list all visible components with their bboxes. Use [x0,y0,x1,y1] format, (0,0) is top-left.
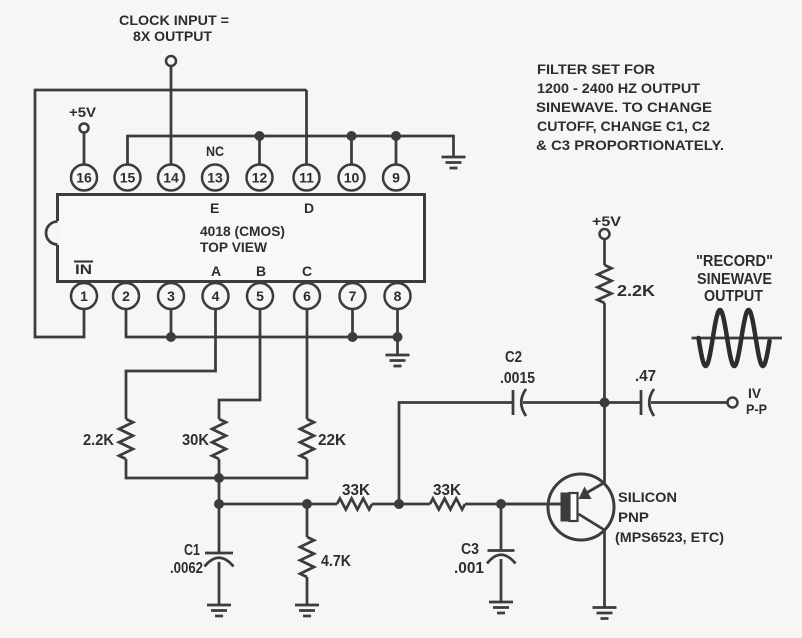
svg-text:7: 7 [349,288,357,304]
pin 3 [158,283,184,309]
svg-text:6: 6 [303,288,311,304]
resistor 22K [300,419,314,459]
pin 11 [294,165,320,191]
wire C3 top lead [500,504,503,551]
svg-text:9: 9 [392,170,400,186]
wire feedback left vertical rail [34,89,37,339]
svg-text:+5V: +5V [69,104,97,120]
svg-text:1: 1 [80,288,88,304]
wire resistor-bottom bus [126,477,307,480]
svg-text:C1: C1 [184,542,200,559]
svg-text:14: 14 [163,170,179,186]
pin 9 [383,165,409,191]
svg-text:4.7K: 4.7K [321,553,351,570]
svg-text:.0062: .0062 [170,560,203,577]
wire 22K bottom lead [306,459,309,479]
resistor 33K (second) [430,499,465,510]
wire C1 top lead [218,504,221,554]
svg-text:4018 (CMOS): 4018 (CMOS) [200,223,285,239]
svg-text:C: C [302,263,312,279]
pin 8 [385,283,411,309]
node junction C3 / base [496,499,506,509]
wire clock terminal to pin 14 [170,67,173,167]
node junction 4.7K / base bus [302,499,312,509]
pin 2 [113,283,139,309]
pin 1 [71,283,97,309]
wire pin 11 stub up to feedback line [305,90,308,166]
ground (below 4.7K) [295,605,319,616]
node junction C1 / base bus [214,499,224,509]
node CLOCK input label [119,12,229,44]
node junction pin 3 / lower ground bus [166,332,176,342]
wire C3 bottom lead [500,559,503,602]
wire 4.7K bottom lead [306,577,309,605]
wire 33K to transistor base [465,503,561,506]
wire C2 branch horizontal to C2 [398,401,513,404]
pin 14 [158,165,184,191]
pin 15 [115,165,141,191]
svg-text:SINEWAVE: SINEWAVE [697,271,772,288]
ground (below C3) [489,602,513,613]
wire .47 to output terminal [651,401,728,404]
wire C2 to output node [523,401,641,404]
wire pin 10 stub [350,136,353,166]
pin 7 [340,283,366,309]
wire 30K bottom lead through junction [218,459,221,504]
node junction pin 12 / ground bus [255,131,265,141]
svg-text:SINEWAVE. TO CHANGE: SINEWAVE. TO CHANGE [536,99,712,115]
label "RECORD" SINEWAVE OUTPUT [696,253,773,305]
svg-text:NC: NC [206,143,224,159]
pin 4 [203,283,229,309]
svg-text:P-P: P-P [746,401,767,417]
wire pin 3 stub [170,309,173,337]
ground (top right of IC) [442,157,466,168]
svg-text:CUTOFF, CHANGE C1, C2: CUTOFF, CHANGE C1, C2 [537,118,710,134]
node junction pin 10 / ground bus [347,131,357,141]
+5V terminal (left) [80,124,89,133]
wire pin 8 stub and ground drop [396,309,399,355]
output terminal [728,398,738,408]
capacitor C1 [205,553,234,567]
svg-text:2.2K: 2.2K [617,283,656,300]
svg-text:33K: 33K [342,482,370,499]
wire base bus horizontal [219,503,337,506]
resistor 2.2K (left) [119,419,133,459]
note filter text block [536,61,724,153]
pin 16 [71,165,97,191]
wire pin 6 (C) to 22K [306,309,309,419]
svg-text:C2: C2 [505,349,522,366]
wire pin 1 stub down [83,309,86,338]
svg-text:22K: 22K [318,432,346,449]
svg-text:B: B [256,263,266,279]
svg-text:.0015: .0015 [500,370,535,387]
ground (below pin 8) [386,355,410,366]
wire C2 branch vertical [398,403,401,505]
wire 2.2K bottom lead [125,459,128,479]
wire 4.7K top lead [306,504,309,537]
resistor 30K [212,419,226,459]
svg-text:16: 16 [76,170,92,186]
wire 2.2K to output node [603,303,606,403]
wire pin 7 stub [351,309,354,337]
wire ground bus drop [452,135,455,157]
svg-text:2.2K: 2.2K [83,432,114,449]
wire emitter vertical [603,403,606,485]
svg-text:FILTER SET FOR: FILTER SET FOR [537,61,655,77]
svg-text:IV: IV [748,385,762,401]
svg-text:4: 4 [212,288,220,304]
svg-text:D: D [304,200,314,216]
wire pin 5 (B) to 30K [219,309,260,419]
node junction 30K / resistor bus [214,473,224,483]
svg-text:10: 10 [344,170,360,186]
svg-text:5: 5 [256,288,264,304]
pin 5 [247,283,273,309]
svg-text:.001: .001 [454,560,484,577]
sinewave waveform [699,310,770,366]
wire +5V to pin 16 [83,133,86,166]
wire pin 12 stub [258,136,261,166]
svg-text:2: 2 [122,288,130,304]
pin 10 [339,165,365,191]
svg-text:PNP: PNP [618,509,649,525]
IC U1 4018 (CMOS) DIP-16 body [46,195,425,282]
node junction pin 7 / lower ground bus [348,332,358,342]
capacitor C2 [513,389,526,416]
svg-text:IN: IN [75,261,92,277]
+5V terminal (right) [600,229,610,239]
node junction pin 9 / ground bus [391,131,401,141]
wire ground bus above IC (pins 15,12,10,9) [128,135,454,138]
svg-text:.47: .47 [635,368,656,385]
node junction C2 branch / base bus [394,499,404,509]
sinewave baseline [692,337,783,340]
svg-text:(MPS6523, ETC): (MPS6523, ETC) [615,529,724,545]
svg-text:11: 11 [299,170,314,186]
svg-text:& C3 PROPORTIONATELY.: & C3 PROPORTIONATELY. [536,137,724,153]
svg-text:1200 - 2400 HZ OUTPUT: 1200 - 2400 HZ OUTPUT [537,80,700,96]
pin 12 [247,165,273,191]
svg-text:12: 12 [252,170,268,186]
capacitor C3 [487,551,516,564]
wire ground bus below IC (pins 2,3,7,8) [126,336,398,339]
svg-text:8: 8 [394,288,402,304]
svg-text:A: A [211,263,221,279]
wire between 33K resistors [372,503,430,506]
pin 13 [202,165,228,191]
svg-text:OUTPUT: OUTPUT [704,288,763,305]
wire pin 2 stub [125,309,128,338]
svg-text:3: 3 [167,288,175,304]
svg-text:C3: C3 [461,541,479,558]
wire pin 4 (A) to 2.2K [126,309,216,419]
wire pin 1 horizontal to left rail [34,336,86,339]
svg-text:33K: 33K [433,482,461,499]
wire C1 bottom lead [218,562,221,605]
svg-text:8X OUTPUT: 8X OUTPUT [133,28,212,44]
resistor 33K (first) [337,499,372,510]
U1 label IN (inverted) [74,261,93,277]
node junction collector / output [600,398,610,408]
svg-text:TOP VIEW: TOP VIEW [200,239,268,255]
svg-text:13: 13 [207,170,223,186]
svg-text:15: 15 [120,170,136,186]
svg-text:SILICON: SILICON [618,489,677,505]
svg-text:E: E [210,200,219,216]
node junction pin 8 / lower ground bus [393,332,403,342]
svg-text:"RECORD": "RECORD" [696,253,773,270]
svg-text:+5V: +5V [592,213,622,229]
svg-text:30K: 30K [182,432,209,449]
transistor Q1 [501,474,614,540]
wire pin 15 stub [126,135,129,166]
ground (below C1) [207,605,231,616]
svg-text:CLOCK INPUT =: CLOCK INPUT = [119,12,229,28]
resistor 4.7K [300,537,314,577]
ground (below transistor) [593,608,617,619]
wire +5V to 2.2K [603,240,606,266]
resistor 2.2K (right) [598,265,612,303]
pin 6 [294,283,320,309]
wire feedback top horizontal (pin 11 to left rail) [35,89,307,92]
wire collector down [603,530,606,608]
wire pin 9 stub [395,136,398,166]
capacitor .47 [641,389,654,416]
clock input terminal [166,56,176,66]
